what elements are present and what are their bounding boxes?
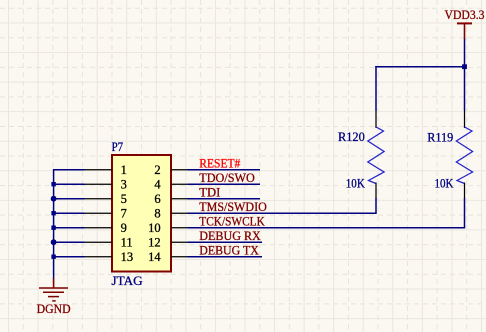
pin 13 (left) [84,250,133,264]
ground DGND [37,278,71,316]
svg-text:TDI: TDI [199,186,220,200]
resistor R119 [456,110,472,199]
wire: R119 bottom to TCK/SWCLK [464,198,466,228]
svg-text:14: 14 [148,250,161,264]
wire: pin 3 to GND bus [54,183,85,185]
wire: GND bus vertical [53,169,55,279]
wire: net RESET# [188,169,261,171]
pin 1 (left) [84,163,127,177]
svg-text:R120: R120 [338,130,365,144]
svg-text:8: 8 [154,207,160,221]
wire: top horizontal R120 to R119 [375,66,464,68]
wire: net TMS/SWDIO [188,212,377,214]
svg-text:5: 5 [121,192,127,206]
junction at R119 / top wire [462,64,467,69]
wire: net TDI [188,198,261,200]
pin 12 (right) [148,236,188,250]
pin 6 (right) [154,192,188,206]
wire: pin 11 to GND bus [54,241,85,243]
svg-text:13: 13 [121,250,134,264]
svg-text:P7: P7 [112,140,124,154]
junction on GND bus at pin 13 [51,255,55,259]
svg-text:2: 2 [154,163,160,177]
pin 10 (right) [148,221,188,235]
wire: pin 7 to GND bus [54,212,85,214]
svg-text:10: 10 [148,221,161,235]
svg-text:TMS/SWDIO: TMS/SWDIO [199,200,266,214]
pin 8 (right) [154,207,188,221]
wire: pin 13 to GND bus [54,256,85,258]
pin 4 (right) [154,178,188,192]
svg-text:TDO/SWO: TDO/SWO [199,171,255,185]
svg-text:VDD3.3: VDD3.3 [445,8,485,22]
junction on GND bus at pin 7 [51,211,55,215]
wire: R120 top vertical [375,66,377,111]
junction on GND bus at pin 5 [51,196,57,202]
junction on GND bus at pin 11 [51,239,57,245]
wire: R120 bottom to TMS/SWDIO [375,198,377,214]
pin 14 (right) [148,250,188,264]
svg-text:DEBUG TX: DEBUG TX [199,244,258,258]
svg-text:RESET#: RESET# [199,157,241,171]
power port VDD3.3 [445,8,485,39]
pin 2 (right) [154,163,188,177]
wire: pin 1 to GND bus [54,169,85,171]
wire: net DEBUG TX [188,256,263,258]
svg-text:1: 1 [121,163,127,177]
wire: net TCK/SWCLK [188,227,465,229]
wire: pin 5 to GND bus [54,198,85,200]
connector P7 body [112,155,171,272]
junction on GND bus at pin 3 [51,182,55,186]
pin 7 (left) [84,207,127,221]
svg-text:7: 7 [121,207,127,221]
wire: net TDO/SWO [188,183,261,185]
svg-text:DEBUG RX: DEBUG RX [199,229,260,243]
pin 3 (left) [84,178,127,192]
svg-text:DGND: DGND [37,302,71,316]
svg-text:10K: 10K [346,176,365,190]
junction on GND bus at pin 9 [51,226,55,230]
svg-text:10K: 10K [435,176,454,190]
svg-text:9: 9 [121,221,127,235]
svg-text:TCK/SWCLK: TCK/SWCLK [199,215,264,229]
pin 9 (left) [84,221,127,235]
wire: R119 top vertical to VDD3.3 [464,39,466,111]
svg-text:12: 12 [148,236,161,250]
wire: pin 9 to GND bus [54,227,85,229]
pin 11 (left) [84,236,133,250]
svg-text:3: 3 [121,178,127,192]
svg-text:6: 6 [154,192,160,206]
svg-text:4: 4 [154,178,161,192]
svg-text:R119: R119 [427,130,453,144]
resistor R120 [368,110,384,199]
wire: net DEBUG RX [188,241,263,243]
pin 5 (left) [84,192,127,206]
svg-text:11: 11 [121,236,133,250]
svg-text:JTAG: JTAG [112,274,143,288]
